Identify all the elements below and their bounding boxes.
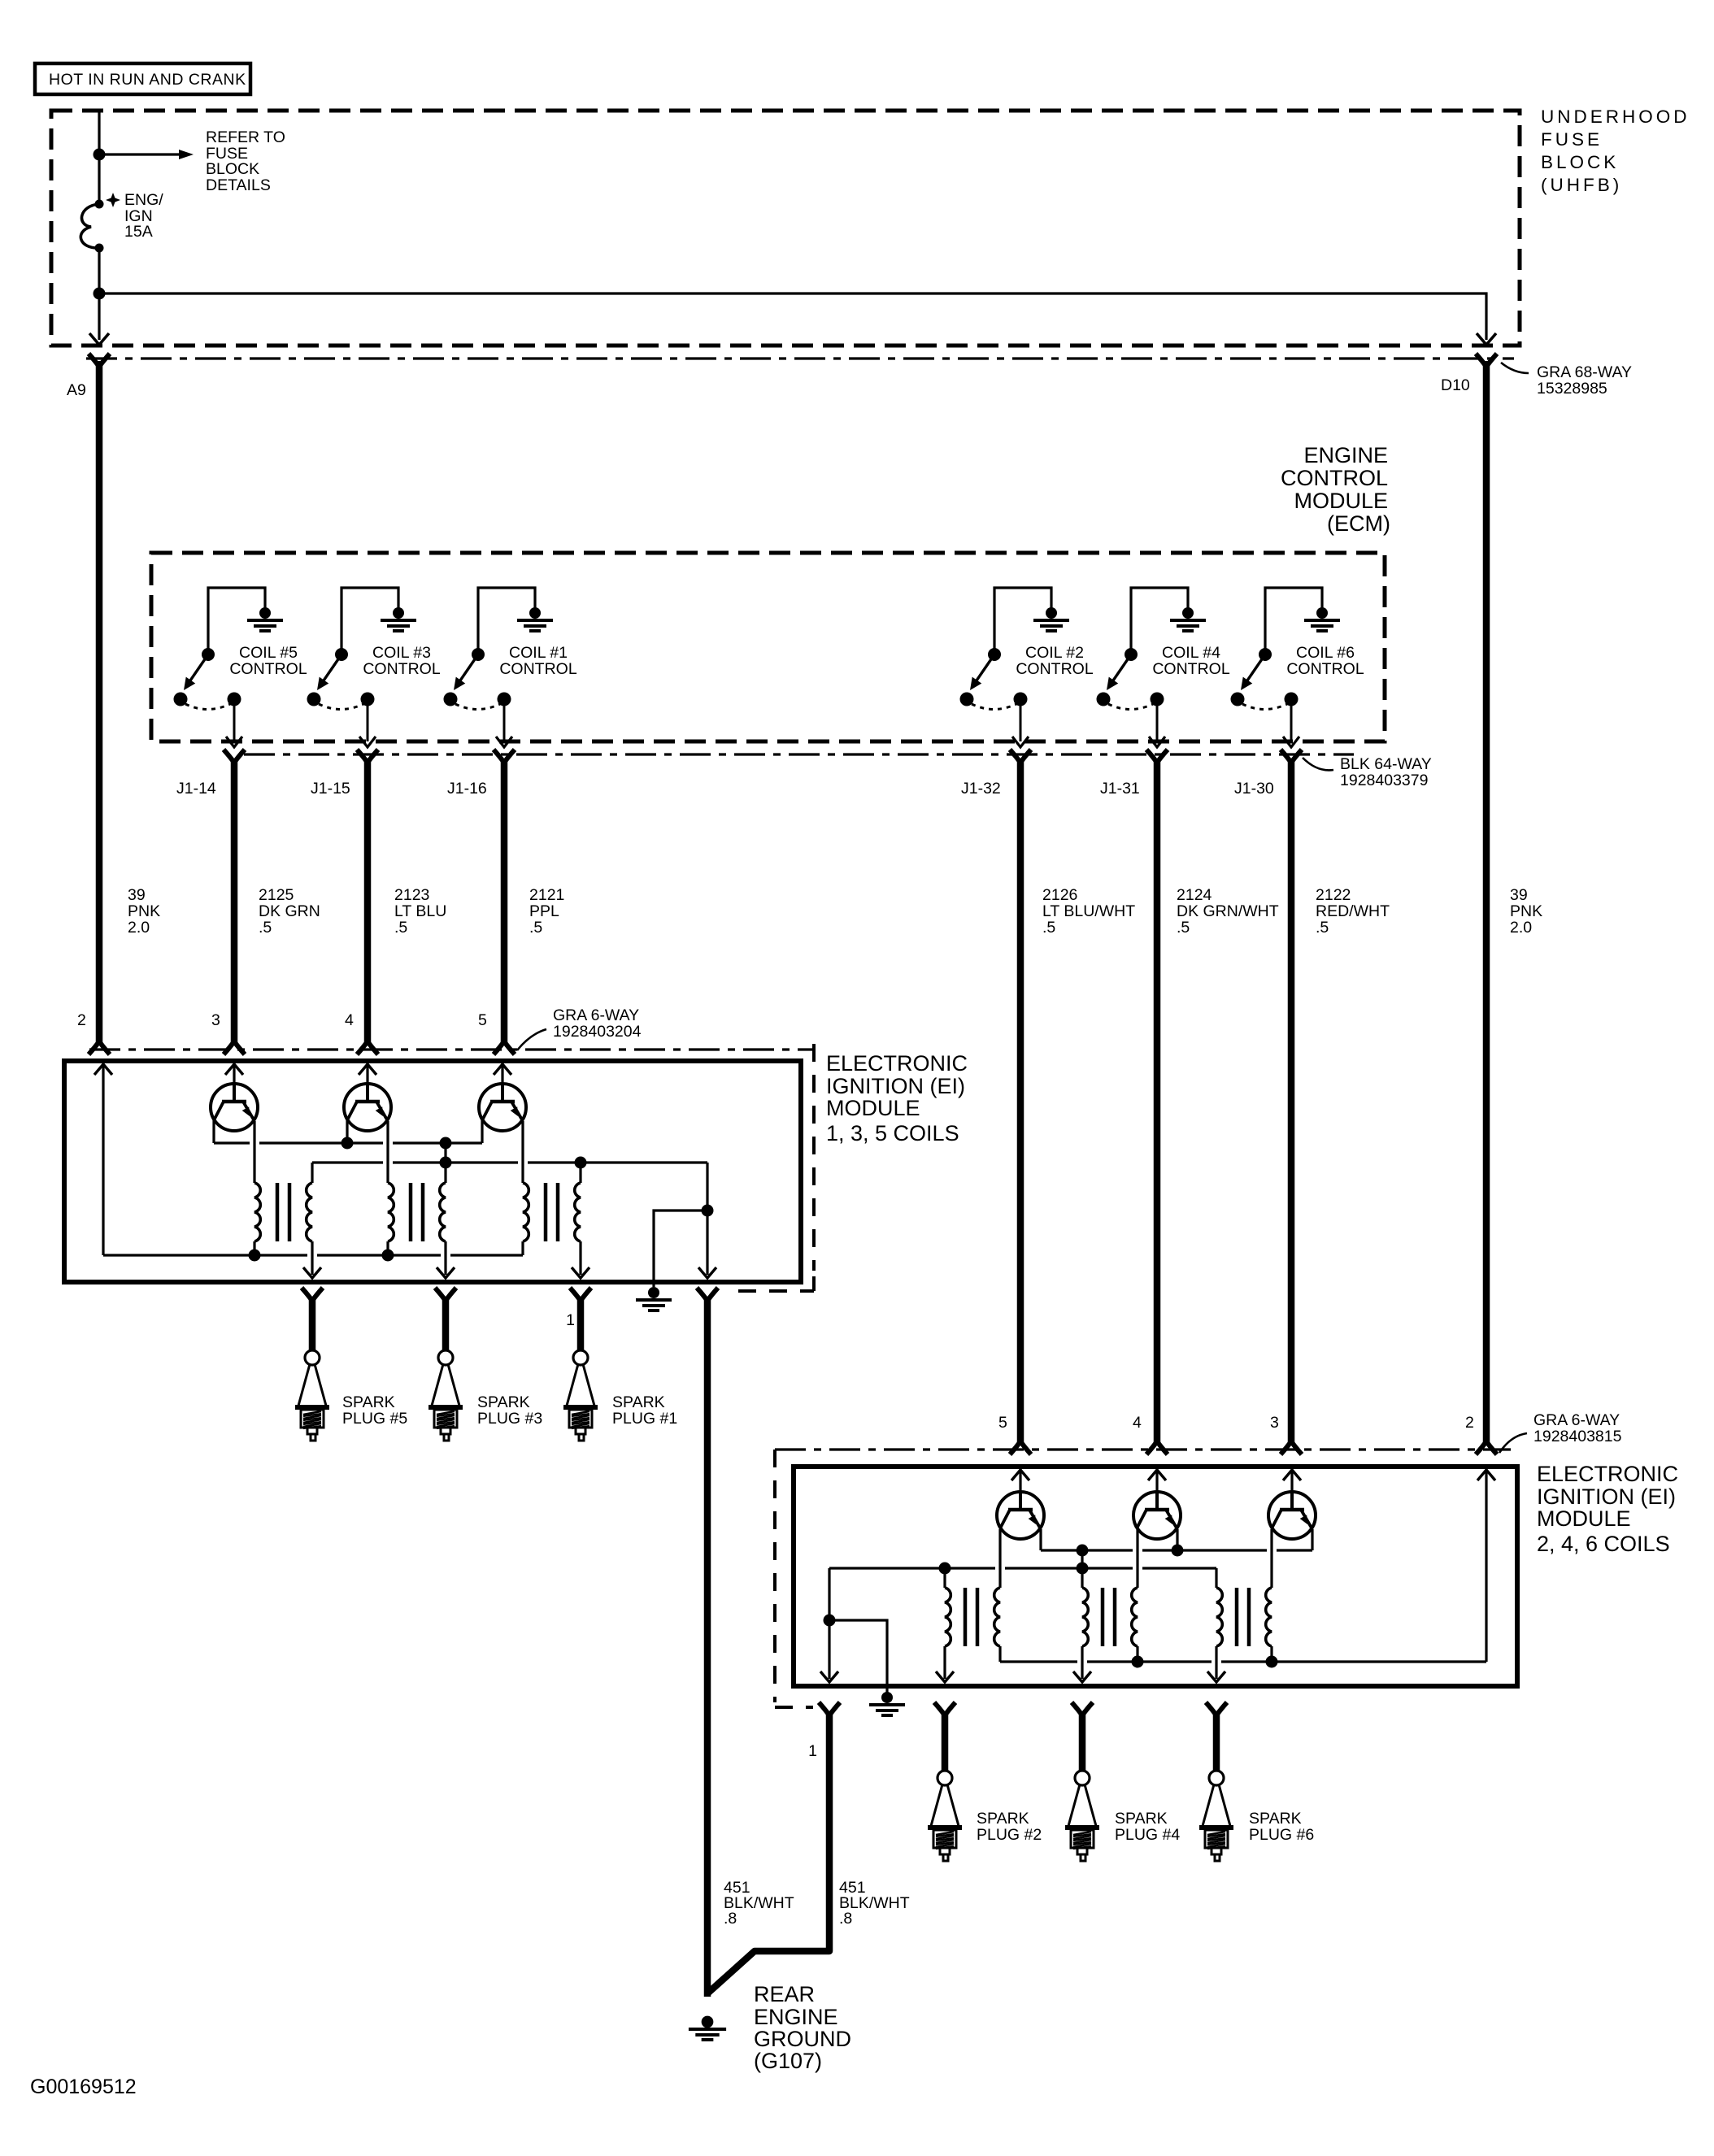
svg-text:J1-31: J1-31 <box>1100 780 1140 798</box>
arrow spark3 out <box>437 1267 455 1278</box>
wire A9 to EI module (39 PNK) <box>96 361 103 1045</box>
svg-text:ELECTRONIC: ELECTRONIC <box>1537 1462 1678 1486</box>
wire primary return bus C <box>103 1254 523 1256</box>
svg-text:39: 39 <box>128 886 146 904</box>
connector fork J1-32 <box>1010 750 1031 763</box>
arrow at D10 exit <box>1477 333 1496 345</box>
svg-text:CONTROL: CONTROL <box>363 660 440 678</box>
svg-text:COIL #5: COIL #5 <box>239 644 298 662</box>
svg-text:LT BLU/WHT: LT BLU/WHT <box>1042 902 1135 920</box>
arrow spark5 out <box>303 1267 321 1278</box>
svg-text:IGNITION (EI): IGNITION (EI) <box>1537 1484 1676 1509</box>
label wire 39 PNK 2.0 right <box>1510 886 1542 937</box>
svg-text:4: 4 <box>1133 1414 1142 1432</box>
node coil5 primary junction <box>249 1250 261 1262</box>
feed wire across UHFB to D10 <box>99 293 1486 340</box>
svg-text:FUSE: FUSE <box>1541 129 1603 150</box>
svg-text:CONTROL: CONTROL <box>499 660 576 678</box>
svg-text:15328985: 15328985 <box>1537 380 1607 398</box>
electronic ignition module 2,4,6 box <box>794 1467 1517 1686</box>
label GRA 68-WAY 15328985 <box>1501 363 1632 398</box>
label SPARK PLUG #2 <box>977 1810 1042 1844</box>
label wire 39 PNK 2.0 left <box>128 886 160 937</box>
svg-text:COIL #3: COIL #3 <box>372 644 431 662</box>
wire fuse to bottom of UHFB <box>98 248 100 340</box>
coil #3 control driver <box>307 588 441 747</box>
connector fork spark1 <box>566 1288 591 1329</box>
svg-text:CONTROL: CONTROL <box>1281 466 1388 490</box>
label wire 2122 RED/WHT .5 <box>1316 886 1390 937</box>
pin 2 label right EI <box>1465 1414 1474 1432</box>
ignition coil 5 primary <box>254 1183 260 1255</box>
svg-text:4: 4 <box>345 1011 354 1029</box>
ground G107 <box>689 2016 726 2040</box>
label GRA 6-WAY 1928403815 <box>1499 1411 1622 1453</box>
label SPARK PLUG #3 <box>477 1393 542 1428</box>
node coil3 primary junction <box>382 1250 394 1262</box>
svg-text:2122: 2122 <box>1316 886 1351 904</box>
svg-text:BLOCK: BLOCK <box>1541 152 1619 172</box>
right EI dashed boundary <box>775 1450 813 1707</box>
svg-text:.5: .5 <box>529 919 542 937</box>
connector fork J1-14 <box>224 750 245 763</box>
connector fork J1-31 <box>1146 750 1168 763</box>
connector fork spark2 <box>934 1702 955 1715</box>
svg-text:MODULE: MODULE <box>1537 1506 1631 1531</box>
fuse ENG/IGN 15A <box>80 200 103 253</box>
svg-text:DETAILS: DETAILS <box>206 176 271 194</box>
pin 4 label left EI <box>345 1011 354 1029</box>
UHFB connector line <box>86 357 1514 359</box>
svg-text:2, 4, 6 COILS: 2, 4, 6 COILS <box>1537 1532 1670 1556</box>
svg-text:COIL #6: COIL #6 <box>1296 644 1355 662</box>
label REAR ENGINE GROUND (G107) <box>754 1982 851 2073</box>
connector fork spark6 <box>1206 1702 1227 1715</box>
ECM connector line <box>244 753 1354 755</box>
connector fork pin 5 <box>494 1041 515 1054</box>
svg-text:1, 3, 5 COILS: 1, 3, 5 COILS <box>826 1121 959 1145</box>
wire internal ground L right <box>829 1620 887 1693</box>
entry stub pin3R with arrow <box>1283 1469 1301 1492</box>
ignition coil 1 primary <box>523 1183 529 1255</box>
wire feed bus right EI <box>1000 1660 1486 1663</box>
svg-text:2121: 2121 <box>529 886 564 904</box>
svg-text:HOT IN RUN AND CRANK: HOT IN RUN AND CRANK <box>49 71 246 89</box>
ignition coil 4 primary <box>1132 1588 1138 1662</box>
wire secondary1 top stub <box>311 1163 313 1183</box>
svg-text:(G107): (G107) <box>754 2049 822 2073</box>
connector fork pin1 <box>808 1702 840 1760</box>
svg-text:PLUG #1: PLUG #1 <box>612 1410 677 1428</box>
svg-text:SPARK: SPARK <box>977 1810 1029 1828</box>
engine control module dashed box <box>151 553 1385 741</box>
label J1-15 <box>311 780 350 798</box>
connector fork J1-15 <box>357 750 378 763</box>
node Q3 base junction <box>341 1120 354 1150</box>
arrow spark2 out <box>936 1671 954 1682</box>
wire base bus right <box>1041 1549 1312 1551</box>
wire internal ground L <box>654 1211 707 1287</box>
svg-text:ELECTRONIC: ELECTRONIC <box>826 1051 968 1076</box>
transistor Q6 <box>1268 1492 1316 1539</box>
svg-text:G00169512: G00169512 <box>30 2076 137 2098</box>
wire 2124 DK GRN/WHT (J1-31) <box>1154 759 1161 1445</box>
ignition coil 6 core <box>1237 1588 1249 1646</box>
entry stub pin4R with arrow <box>1148 1469 1166 1492</box>
ignition coil 2 core <box>965 1588 977 1646</box>
svg-text:1: 1 <box>566 1311 575 1329</box>
node busR link <box>1077 1545 1089 1569</box>
label wire 2124 DK GRN/WHT .5 <box>1177 886 1279 937</box>
right EI connector line <box>775 1448 1511 1450</box>
svg-text:39: 39 <box>1510 886 1528 904</box>
wire Q1 base drop <box>481 1120 483 1143</box>
svg-text:2.0: 2.0 <box>128 919 150 937</box>
label ENG/ IGN 15A with star <box>106 191 163 241</box>
label 451 BLK/WHT .8 right <box>839 1879 910 1928</box>
svg-text:IGNITION (EI): IGNITION (EI) <box>826 1074 965 1098</box>
label 451 BLK/WHT .8 left <box>724 1879 794 1928</box>
wire to spark plug 1 <box>577 1298 585 1351</box>
ignition coil 4 core <box>1103 1588 1115 1646</box>
svg-text:SPARK: SPARK <box>1249 1810 1302 1828</box>
svg-text:1928403815: 1928403815 <box>1533 1428 1622 1445</box>
connector fork spark4 <box>1072 1702 1093 1715</box>
label J1-32 <box>961 780 1001 798</box>
wire 451 BLK/WHT from left EI <box>704 1298 711 1997</box>
svg-text:GROUND: GROUND <box>754 2027 851 2051</box>
svg-text:LT BLU: LT BLU <box>394 902 446 920</box>
connector fork pin 4 <box>357 1041 378 1054</box>
label UNDERHOOD FUSE BLOCK (UHFB) <box>1541 106 1690 195</box>
ignition coil 3 core <box>411 1183 423 1241</box>
node coil4 primary junction <box>1132 1656 1144 1668</box>
ignition coil 6 secondary <box>1216 1588 1222 1679</box>
node Q4 emitter junction <box>1172 1529 1184 1557</box>
coil #4 control driver <box>1097 588 1230 747</box>
transistor Q5 <box>211 1084 258 1131</box>
entry stub pin5R with arrow <box>1011 1469 1029 1492</box>
spark plug #5 <box>295 1350 329 1441</box>
svg-text:PLUG #6: PLUG #6 <box>1249 1826 1314 1844</box>
wire Q1 emitter to coil <box>521 1121 524 1183</box>
wire to spark plug 2 <box>942 1712 949 1771</box>
svg-text:SPARK: SPARK <box>342 1393 395 1411</box>
connector fork pin2 right <box>1476 1441 1497 1454</box>
label D10 <box>1441 376 1470 394</box>
label GRA 6-WAY 1928403204 <box>517 1006 642 1050</box>
svg-text:CONTROL: CONTROL <box>1016 660 1093 678</box>
node secondary #3 junction <box>440 1157 452 1169</box>
node ground tap right EI <box>824 1615 836 1627</box>
pin 2 label left EI <box>77 1011 86 1029</box>
pin 5 label right EI <box>998 1414 1007 1432</box>
connector fork ground wire <box>697 1288 718 1301</box>
svg-text:CONTROL: CONTROL <box>229 660 307 678</box>
pin 4 label right EI <box>1133 1414 1142 1432</box>
coil #1 control driver <box>444 588 577 747</box>
wire Q3 emitter to coil <box>386 1121 389 1183</box>
transistor Q2 <box>997 1492 1044 1539</box>
svg-text:PLUG #3: PLUG #3 <box>477 1410 542 1428</box>
arrow spark6 out <box>1207 1671 1225 1682</box>
spark plug #6 <box>1199 1771 1233 1861</box>
wire base bus A <box>214 1141 482 1144</box>
connector fork J1-16 <box>494 750 515 763</box>
transistor Q4 <box>1133 1492 1181 1539</box>
arrow pin1 out <box>820 1671 838 1682</box>
wire 2121 PPL (J1-16) <box>501 759 508 1045</box>
svg-text:1928403204: 1928403204 <box>553 1023 642 1041</box>
pin 3 label left EI <box>211 1011 220 1029</box>
svg-text:COIL #2: COIL #2 <box>1025 644 1084 662</box>
left EI connector line <box>89 1048 814 1050</box>
label ENGINE CONTROL MODULE (ECM) <box>1281 443 1390 536</box>
connector fork pin3 right <box>1281 1441 1302 1454</box>
wire secondary bus right EI <box>829 1567 1216 1569</box>
svg-text:D10: D10 <box>1441 376 1470 394</box>
wire secondary output bus right <box>706 1163 708 1275</box>
node coil6 primary junction <box>1266 1656 1278 1668</box>
svg-text:PNK: PNK <box>1510 902 1542 920</box>
svg-text:PLUG #2: PLUG #2 <box>977 1826 1042 1844</box>
entry stub pin3 with arrow <box>225 1063 243 1084</box>
ignition coil 6 primary <box>1266 1588 1272 1662</box>
svg-text:J1-14: J1-14 <box>176 780 216 798</box>
wire Q4 base to coil <box>1136 1529 1138 1588</box>
node junction feed split <box>94 288 106 300</box>
node junction above fuse <box>94 149 106 161</box>
spark plug #4 <box>1065 1771 1099 1861</box>
label ELECTRONIC IGNITION (EI) MODULE 2,4,6 COILS <box>1537 1462 1678 1556</box>
wire to spark plug 6 <box>1213 1712 1220 1771</box>
svg-text:ENGINE: ENGINE <box>754 2005 838 2029</box>
svg-text:SPARK: SPARK <box>612 1393 665 1411</box>
svg-text:COIL #4: COIL #4 <box>1162 644 1220 662</box>
label HOT IN RUN AND CRANK <box>35 63 250 94</box>
wire 2122 RED/WHT (J1-30) <box>1288 759 1295 1445</box>
label ELECTRONIC IGNITION (EI) MODULE 1,3,5 COILS <box>826 1051 968 1145</box>
svg-text:.8: .8 <box>839 1910 852 1928</box>
svg-text:DK GRN/WHT: DK GRN/WHT <box>1177 902 1279 920</box>
entry stub pin4 with arrow <box>359 1063 376 1084</box>
ignition coil 3 primary <box>388 1183 394 1255</box>
svg-text:1928403379: 1928403379 <box>1340 772 1428 789</box>
svg-text:15A: 15A <box>124 223 153 241</box>
connector fork spark3 <box>435 1288 456 1301</box>
svg-text:2: 2 <box>77 1011 86 1029</box>
connector fork pin 2 <box>89 1041 110 1054</box>
wire to spark plug 3 <box>442 1298 450 1351</box>
svg-text:3: 3 <box>211 1011 220 1029</box>
svg-text:(ECM): (ECM) <box>1327 511 1390 536</box>
arrow at A9 exit <box>89 333 109 345</box>
svg-text:2: 2 <box>1465 1414 1474 1432</box>
svg-text:ENGINE: ENGINE <box>1303 443 1388 467</box>
svg-text:.5: .5 <box>1177 919 1190 937</box>
wire ground branch right EI <box>828 1568 830 1679</box>
svg-text:MODULE: MODULE <box>1294 489 1388 513</box>
svg-text:2123: 2123 <box>394 886 429 904</box>
connector fork pin4 right <box>1146 1441 1168 1454</box>
ignition coil 2 primary <box>994 1588 1000 1662</box>
svg-text:RED/WHT: RED/WHT <box>1316 902 1390 920</box>
svg-text:A9: A9 <box>67 381 86 399</box>
arrow to fuse block details <box>105 150 194 159</box>
label SPARK PLUG #5 <box>342 1393 407 1428</box>
ground internal left EI <box>636 1287 672 1311</box>
entry stub pin2R with arrow <box>1477 1469 1495 1662</box>
ignition coil 1 secondary <box>575 1183 581 1275</box>
svg-text:.5: .5 <box>259 919 272 937</box>
svg-text:J1-15: J1-15 <box>311 780 350 798</box>
wire Q2 emitter elbow <box>1039 1529 1042 1550</box>
pin 3 label right EI <box>1270 1414 1279 1432</box>
wire Q2 base to coil <box>998 1529 1001 1588</box>
svg-text:J1-16: J1-16 <box>447 780 487 798</box>
arrow ground out <box>698 1267 716 1278</box>
node ground tap junction <box>702 1205 714 1217</box>
label wire 2121 PPL .5 <box>529 886 564 937</box>
left EI dashed boundary <box>738 1044 814 1291</box>
entry stub pin5 with arrow <box>494 1063 511 1084</box>
connector fork J1-30 <box>1281 750 1302 763</box>
svg-text:.5: .5 <box>1316 919 1329 937</box>
svg-text:.5: .5 <box>1042 919 1055 937</box>
ground internal right EI <box>869 1692 905 1715</box>
label SPARK PLUG #1 <box>612 1393 677 1428</box>
svg-text:COIL #1: COIL #1 <box>509 644 568 662</box>
pin 5 label left EI <box>478 1011 487 1029</box>
electronic ignition module 1,3,5 box <box>64 1061 801 1282</box>
spark plug #3 <box>428 1350 463 1441</box>
svg-text:1: 1 <box>808 1742 817 1760</box>
svg-text:SPARK: SPARK <box>1115 1810 1168 1828</box>
svg-text:.5: .5 <box>394 919 407 937</box>
label A9 <box>67 381 86 399</box>
ignition coil 4 secondary <box>1082 1588 1088 1679</box>
svg-text:MODULE: MODULE <box>826 1096 920 1120</box>
svg-text:ENG/: ENG/ <box>124 191 163 209</box>
wire secondary2 top stub <box>444 1163 446 1183</box>
svg-text:PNK: PNK <box>128 902 160 920</box>
wire secondary bus B <box>312 1161 707 1163</box>
svg-text:REFER TO: REFER TO <box>206 128 285 146</box>
ignition coil 2 secondary <box>945 1588 951 1679</box>
ignition coil 5 secondary <box>307 1183 312 1275</box>
wire Q6 emitter drop <box>1311 1529 1313 1550</box>
svg-text:.8: .8 <box>724 1910 737 1928</box>
label SPARK PLUG #6 <box>1249 1810 1314 1844</box>
transistor Q1 <box>479 1084 526 1131</box>
node bus A to bus B link <box>440 1137 452 1163</box>
ignition coil 3 secondary <box>440 1183 446 1275</box>
svg-text:CONTROL: CONTROL <box>1152 660 1229 678</box>
connector fork spark5 <box>302 1288 323 1301</box>
label J1-30 <box>1234 780 1274 798</box>
svg-text:UNDERHOOD: UNDERHOOD <box>1541 106 1690 127</box>
svg-text:2124: 2124 <box>1177 886 1212 904</box>
wire Q5 base drop <box>212 1120 215 1143</box>
entry stub pin2 with arrow <box>94 1063 112 1255</box>
connector fork D10 <box>1476 354 1497 367</box>
coil #5 control driver <box>174 588 307 747</box>
connector fork A9 <box>89 354 110 367</box>
svg-text:J1-32: J1-32 <box>961 780 1001 798</box>
svg-text:CONTROL: CONTROL <box>1286 660 1364 678</box>
wire secondary6 top stub <box>1215 1568 1217 1588</box>
label BLK 64-WAY 1928403379 <box>1303 755 1432 789</box>
wire from UHFB top to fuse <box>98 111 100 203</box>
arrow spark4 out <box>1073 1671 1091 1682</box>
wire Q6 base to coil <box>1270 1529 1272 1588</box>
underhood fuse block (UHFB) dashed box <box>51 111 1520 346</box>
svg-text:PLUG #5: PLUG #5 <box>342 1410 407 1428</box>
svg-text:2125: 2125 <box>259 886 294 904</box>
svg-text:GRA 6-WAY: GRA 6-WAY <box>1533 1411 1620 1429</box>
arrow spark1 out <box>572 1267 589 1278</box>
ignition coil 1 core <box>546 1183 558 1241</box>
connector fork pin5 right <box>1010 1441 1031 1454</box>
wire to spark plug 4 <box>1079 1712 1086 1771</box>
label wire 2126 LT BLU/WHT .5 <box>1042 886 1135 937</box>
spark plug #2 <box>928 1771 962 1861</box>
label SPARK PLUG #4 <box>1115 1810 1180 1844</box>
figure number G00169512 <box>30 2076 137 2098</box>
svg-text:3: 3 <box>1270 1414 1279 1432</box>
node secondary #2 junction <box>939 1563 951 1589</box>
label wire 2125 DK GRN .5 <box>259 886 320 937</box>
label J1-16 <box>447 780 487 798</box>
svg-text:GRA 6-WAY: GRA 6-WAY <box>553 1006 639 1024</box>
label J1-14 <box>176 780 216 798</box>
wire 451 BLK/WHT from right EI pin1 <box>707 1712 829 1994</box>
wire 2126 LT BLU/WHT (J1-32) <box>1017 759 1024 1445</box>
wire 2125 DK GRN (J1-14) <box>231 759 238 1045</box>
svg-text:J1-30: J1-30 <box>1234 780 1274 798</box>
svg-text:DK GRN: DK GRN <box>259 902 320 920</box>
label REFER TO FUSE BLOCK DETAILS <box>206 128 285 194</box>
svg-text:5: 5 <box>998 1414 1007 1432</box>
label wire 2123 LT BLU .5 <box>394 886 446 937</box>
node secondary #1 junction <box>575 1157 587 1184</box>
transistor Q3 <box>344 1084 391 1131</box>
svg-text:GRA 68-WAY: GRA 68-WAY <box>1537 363 1632 381</box>
label J1-31 <box>1100 780 1140 798</box>
coil #6 control driver <box>1231 588 1364 747</box>
svg-text:PLUG #4: PLUG #4 <box>1115 1826 1180 1844</box>
spark plug #1 <box>563 1350 598 1441</box>
wire to spark plug 5 <box>309 1298 316 1351</box>
svg-text:(UHFB): (UHFB) <box>1541 175 1622 195</box>
wire D10 to EI module (39 PNK) <box>1483 361 1490 1445</box>
svg-text:5: 5 <box>478 1011 487 1029</box>
wire 2123 LT BLU (J1-15) <box>364 759 372 1045</box>
svg-text:REAR: REAR <box>754 1982 815 2006</box>
svg-text:2.0: 2.0 <box>1510 919 1532 937</box>
coil #2 control driver <box>960 588 1094 747</box>
svg-text:SPARK: SPARK <box>477 1393 530 1411</box>
node secondary #4 junction <box>1077 1563 1089 1589</box>
svg-text:BLOCK: BLOCK <box>206 160 259 178</box>
svg-text:BLK 64-WAY: BLK 64-WAY <box>1340 755 1432 773</box>
svg-text:PPL: PPL <box>529 902 559 920</box>
connector fork pin 3 <box>224 1041 245 1054</box>
svg-text:2126: 2126 <box>1042 886 1077 904</box>
ignition coil 5 core <box>277 1183 289 1241</box>
wire Q5 emitter to coil <box>253 1121 255 1183</box>
